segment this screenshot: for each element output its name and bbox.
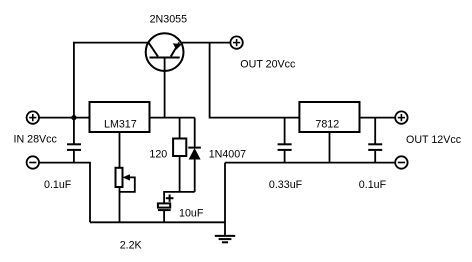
svg-text:IN 28Vcc: IN 28Vcc [14,134,58,146]
svg-text:OUT 12Vcc: OUT 12Vcc [406,134,462,146]
svg-text:0.33uF: 0.33uF [269,179,303,191]
svg-text:7812: 7812 [315,118,339,130]
svg-text:OUT 20Vcc: OUT 20Vcc [240,58,296,70]
svg-text:120: 120 [149,149,167,161]
svg-text:0.1uF: 0.1uF [44,179,72,191]
svg-text:0.1uF: 0.1uF [359,179,387,191]
svg-text:10uF: 10uF [179,208,204,220]
svg-text:1N4007: 1N4007 [209,149,246,161]
svg-text:2N3055: 2N3055 [150,14,187,26]
svg-text:2.2K: 2.2K [120,240,143,252]
svg-text:LM317: LM317 [104,118,137,130]
